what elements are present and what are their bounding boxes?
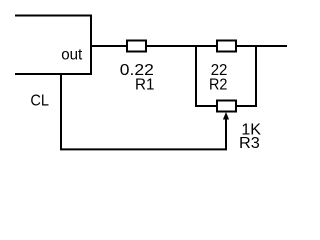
node A junction: left branch vertical wire	[195, 45, 197, 106]
resistor R3 (potentiometer body)	[217, 101, 236, 112]
wire out pin to R1	[91, 45, 128, 47]
svg-text:R1: R1	[135, 77, 154, 94]
wire CL pin down, across bottom, up to wiper	[61, 74, 226, 149]
svg-text:R3: R3	[239, 135, 260, 152]
wire lower branch left segment	[195, 105, 218, 107]
resistor R2	[217, 41, 236, 52]
svg-text:CL: CL	[30, 93, 49, 110]
IC box U1 (open-left body with out and CL pins)	[15, 16, 91, 75]
right branch vertical wire	[255, 45, 257, 106]
wire lower branch right segment	[236, 105, 257, 107]
wire R1 to R2 (through node A)	[146, 45, 218, 47]
wire R2 to right end	[236, 45, 287, 47]
svg-text:R2: R2	[209, 77, 227, 94]
resistor R1	[127, 41, 146, 52]
svg-text:out: out	[61, 46, 83, 63]
potentiometer wiper arrow of R3	[223, 112, 229, 120]
